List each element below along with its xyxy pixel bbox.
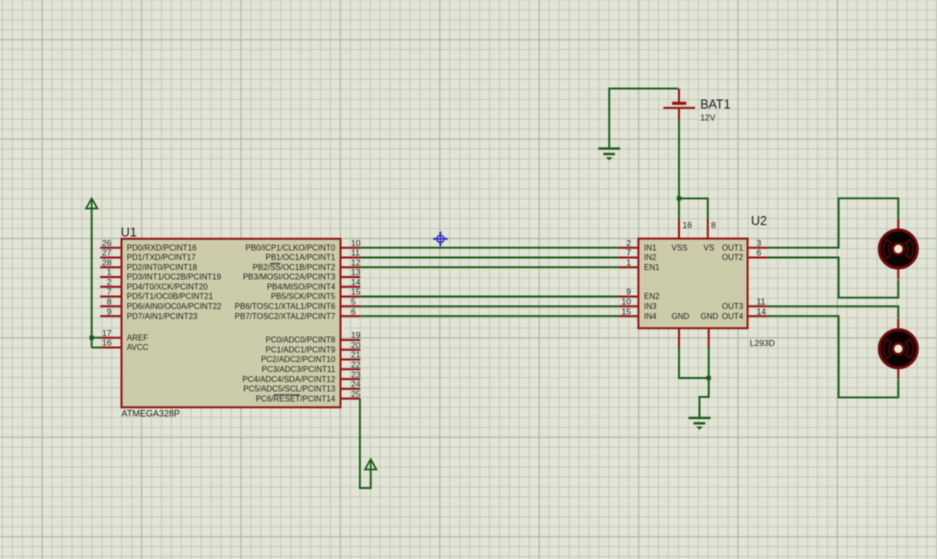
svg-text:25: 25 (351, 389, 361, 399)
svg-text:14: 14 (351, 277, 361, 287)
svg-text:5: 5 (351, 297, 356, 307)
wire branch to VS (679, 198, 708, 219)
svg-text:7: 7 (626, 248, 631, 258)
U1 pin 27 PD1/TXD/PCINT17 (100, 248, 196, 263)
svg-text:U1: U1 (121, 225, 137, 239)
svg-text:28: 28 (102, 257, 112, 267)
svg-text:BAT1: BAT1 (700, 98, 730, 112)
wire OUT1 to motor M1 + (767, 198, 898, 247)
svg-text:EN1: EN1 (644, 263, 660, 272)
svg-text:PB3/MOSI/OC2A/PCINT3: PB3/MOSI/OC2A/PCINT3 (243, 273, 336, 282)
U1 pin 8 PD6/AIN0/OC0A/PCINT22 (100, 297, 222, 312)
U2 pin 7 IN2 (619, 248, 657, 263)
microcontroller U1 body (122, 239, 341, 407)
svg-text:OUT1: OUT1 (722, 243, 744, 252)
svg-text:2: 2 (626, 238, 631, 248)
svg-text:1: 1 (626, 257, 631, 267)
svg-text:6: 6 (757, 248, 762, 258)
svg-text:PB1/OC1A/PCINT1: PB1/OC1A/PCINT1 (265, 253, 335, 262)
wire PB1-IN2 (360, 257, 618, 259)
svg-text:8: 8 (711, 220, 716, 230)
wire battery top to ground (609, 89, 678, 148)
U2 GND pin (left) (672, 312, 690, 348)
wire PC6 down (360, 399, 371, 489)
wire PB6-IN3 (360, 305, 618, 307)
motor M1 (879, 219, 917, 280)
svg-text:19: 19 (351, 330, 361, 340)
U1 pin 7 PD5/T1/OC0B/PCINT21 (100, 287, 213, 302)
U1 pin 19 PC0 (266, 330, 361, 345)
U2 GND pin (right) (701, 312, 719, 348)
wire PB2-EN1 (360, 266, 618, 268)
wire OUT3 to motor M2 + (767, 306, 898, 318)
svg-text:9: 9 (107, 306, 112, 316)
svg-text:12V: 12V (700, 112, 715, 122)
svg-text:3: 3 (757, 238, 762, 248)
wire power to AVCC (91, 209, 93, 348)
wire PB5-EN2 (360, 296, 618, 298)
svg-text:11: 11 (757, 297, 766, 307)
svg-text:ATMEGA328P: ATMEGA328P (122, 408, 180, 418)
svg-text:8: 8 (107, 297, 112, 307)
U1 pin 2 PD4/T0/XCK/PCINT20 (100, 277, 208, 292)
svg-text:PD5/T1/OC0B/PCINT21: PD5/T1/OC0B/PCINT21 (127, 292, 214, 301)
U1 pin 16 AVCC (101, 338, 149, 353)
wire junction to ground (700, 378, 709, 418)
U1 pin 10 PB0 (245, 238, 360, 253)
U1 pin 23 PC4 (242, 369, 360, 384)
svg-text:PC2/ADC2/PCINT10: PC2/ADC2/PCINT10 (261, 355, 336, 364)
wire OUT4 to motor M2 - (767, 316, 898, 397)
U1 pin 9 PD7/AIN1/PCINT23 (100, 306, 198, 321)
svg-text:15: 15 (622, 306, 632, 316)
svg-text:1: 1 (107, 267, 112, 277)
svg-text:OUT3: OUT3 (722, 302, 744, 311)
junction GND (707, 376, 711, 380)
svg-text:IN1: IN1 (644, 243, 657, 252)
svg-text:14: 14 (757, 306, 767, 316)
U2 pin 2 IN1 (619, 238, 657, 253)
svg-text:IN2: IN2 (644, 253, 657, 262)
svg-text:15: 15 (351, 287, 361, 297)
motor M2 (879, 319, 917, 380)
U2 pin 3 OUT1 (722, 238, 768, 253)
U1 pin 25 PC6 (256, 389, 361, 404)
svg-text:PD4/T0/XCK/PCINT20: PD4/T0/XCK/PCINT20 (127, 283, 208, 292)
svg-text:20: 20 (351, 340, 361, 350)
power terminal (PC6) (365, 459, 376, 469)
svg-text:IN3: IN3 (644, 302, 657, 311)
wire GND left pin down (679, 348, 709, 379)
svg-text:PC5/ADC5/SCL/PCINT13: PC5/ADC5/SCL/PCINT13 (243, 385, 336, 394)
battery BAT1 (663, 89, 695, 120)
U1 pin 21 PC2 (261, 350, 361, 365)
svg-text:PB7/TOSC2/XTAL2/PCINT7: PB7/TOSC2/XTAL2/PCINT7 (235, 312, 336, 321)
svg-text:2: 2 (107, 277, 112, 287)
svg-text:PC6/RESET/PCINT14: PC6/RESET/PCINT14 (256, 394, 336, 403)
wire battery to VSS (678, 119, 680, 219)
origin marker (blue crosshair) (433, 231, 449, 247)
wire OUT2 to motor M1 - (767, 258, 898, 298)
svg-text:OUT4: OUT4 (722, 312, 744, 321)
U2 pin 8 VS (704, 219, 717, 253)
U2 pin 9 EN2 (619, 287, 661, 302)
wire PB7-IN4 (360, 315, 618, 317)
U1 pin 17 AREF (101, 328, 149, 343)
svg-text:17: 17 (102, 328, 112, 338)
svg-text:GND: GND (701, 312, 719, 321)
svg-text:23: 23 (351, 369, 361, 379)
svg-text:24: 24 (351, 379, 361, 389)
svg-text:PB2/SS/OC1B/PCINT2: PB2/SS/OC1B/PCINT2 (253, 263, 336, 272)
U2 pin 1 EN1 (619, 257, 661, 272)
svg-text:7: 7 (107, 287, 112, 297)
svg-text:PB0/ICP1/CLKO/PCINT0: PB0/ICP1/CLKO/PCINT0 (245, 243, 335, 252)
wire GND right pin down (708, 348, 710, 379)
svg-text:PB5/SCK/PCINT5: PB5/SCK/PCINT5 (271, 292, 336, 301)
U2 pin 10 IN3 (619, 297, 657, 312)
svg-text:PB6/TOSC1/XTAL1/PCINT6: PB6/TOSC1/XTAL1/PCINT6 (235, 302, 336, 311)
U2 pin 11 OUT3 (722, 297, 768, 312)
U2 pin 14 OUT4 (722, 306, 768, 321)
U1 pin 14 PB4 (267, 277, 361, 292)
U2 pin 16 VSS (672, 219, 693, 253)
svg-text:PD2/INT0/PCINT18: PD2/INT0/PCINT18 (127, 263, 198, 272)
svg-text:21: 21 (351, 350, 361, 360)
svg-text:9: 9 (626, 287, 631, 297)
svg-text:VS: VS (704, 243, 715, 252)
svg-text:GND: GND (672, 312, 690, 321)
svg-text:PC0/ADC0/PCINT8: PC0/ADC0/PCINT8 (266, 336, 336, 345)
svg-text:U2: U2 (751, 214, 767, 228)
svg-text:26: 26 (102, 238, 112, 248)
svg-text:13: 13 (351, 267, 361, 277)
svg-text:PD6/AIN0/OC0A/PCINT22: PD6/AIN0/OC0A/PCINT22 (127, 302, 222, 311)
svg-text:10: 10 (622, 297, 632, 307)
svg-text:11: 11 (351, 248, 360, 258)
U1 pin 6 PB7 (235, 306, 361, 321)
junction AREF (90, 336, 94, 340)
junction VSS/VS (677, 196, 681, 200)
svg-text:12: 12 (351, 257, 361, 267)
svg-text:PC1/ADC1/PCINT9: PC1/ADC1/PCINT9 (266, 346, 336, 355)
U1 pin 22 PC3 (262, 360, 361, 375)
U1 pin 5 PB6 (235, 297, 361, 312)
U1 pin 20 PC1 (266, 340, 361, 355)
svg-text:PB4/MISO/PCINT4: PB4/MISO/PCINT4 (267, 283, 336, 292)
svg-text:10: 10 (351, 238, 361, 248)
U1 pin 28 PD2/INT0/PCINT18 (100, 257, 197, 272)
svg-text:AREF: AREF (127, 333, 148, 342)
svg-text:PD0/RXD/PCINT16: PD0/RXD/PCINT16 (127, 243, 197, 252)
svg-text:16: 16 (102, 338, 112, 348)
svg-text:PC4/ADC4/SDA/PCINT12: PC4/ADC4/SDA/PCINT12 (242, 375, 335, 384)
svg-text:27: 27 (102, 248, 112, 258)
svg-text:PC3/ADC3/PCINT11: PC3/ADC3/PCINT11 (262, 365, 336, 374)
svg-text:AVCC: AVCC (127, 343, 149, 352)
wire branch to AREF (92, 337, 101, 339)
U1 pin 11 PB1 (265, 248, 360, 263)
U1 pin 15 PB5 (271, 287, 361, 302)
U1 pin 26 PD0/RXD/PCINT16 (100, 238, 197, 253)
svg-text:IN4: IN4 (644, 312, 657, 321)
U2 pin 15 IN4 (619, 306, 657, 321)
U1 pin 1 PD3/INT1/OC2B/PCINT19 (100, 267, 221, 282)
svg-text:PD1/TXD/PCINT17: PD1/TXD/PCINT17 (127, 253, 196, 262)
motor driver U2 body (638, 239, 747, 329)
svg-text:OUT2: OUT2 (722, 253, 744, 262)
svg-text:VSS: VSS (672, 243, 688, 252)
svg-text:22: 22 (351, 360, 361, 370)
U1 pin 12 PB2 (253, 257, 361, 272)
svg-text:6: 6 (351, 306, 356, 316)
U1 pin 24 PC5 (243, 379, 360, 394)
svg-text:EN2: EN2 (644, 292, 660, 301)
U2 pin 6 OUT2 (722, 248, 768, 263)
svg-text:L293D: L293D (750, 338, 775, 348)
power terminal (AREF/AVCC) (86, 198, 97, 208)
svg-text:16: 16 (683, 220, 693, 230)
svg-text:PD3/INT1/OC2B/PCINT19: PD3/INT1/OC2B/PCINT19 (127, 273, 222, 282)
wire to AVCC pin (92, 347, 101, 349)
U1 pin 13 PB3 (243, 267, 361, 282)
ground (L293D) (689, 418, 711, 430)
svg-text:PD7/AIN1/PCINT23: PD7/AIN1/PCINT23 (127, 312, 198, 321)
wire PB0-IN1 (360, 247, 618, 249)
ground (battery) (598, 149, 620, 161)
